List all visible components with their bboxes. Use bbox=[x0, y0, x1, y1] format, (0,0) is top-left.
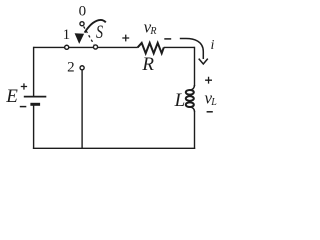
resistor R zigzag bbox=[138, 43, 164, 53]
battery plus sign bbox=[21, 83, 27, 89]
resistor plus sign bbox=[122, 35, 129, 42]
svg-text:2: 2 bbox=[67, 59, 75, 75]
svg-text:1: 1 bbox=[63, 27, 71, 43]
inductor L coil bbox=[186, 85, 195, 112]
wire top right (resistor to corner) bbox=[164, 46, 195, 48]
switch pivot node bbox=[93, 45, 97, 49]
svg-text:0: 0 bbox=[79, 4, 87, 20]
svg-text:S: S bbox=[96, 21, 104, 43]
wire left (battery branch) bbox=[33, 47, 35, 149]
battery E plates bbox=[24, 97, 47, 105]
svg-text:L: L bbox=[210, 97, 217, 108]
svg-text:E: E bbox=[5, 86, 18, 107]
current arrow i bbox=[180, 39, 208, 65]
wire right (inductor branch) bbox=[194, 47, 196, 149]
resistor minus sign bbox=[164, 38, 171, 40]
switch terminal node 2 bbox=[80, 66, 84, 70]
switch S dashed blade (position 0 to pivot) bbox=[84, 26, 94, 44]
wire top (node 1 side) bbox=[34, 46, 138, 48]
switch S motion arrowhead bbox=[75, 33, 85, 44]
switch terminal node 0 bbox=[80, 22, 84, 26]
switch terminal node 1 bbox=[65, 45, 69, 49]
svg-text:R: R bbox=[149, 26, 156, 37]
inductor plus sign bbox=[205, 77, 212, 84]
inductor minus sign bbox=[207, 111, 213, 113]
svg-text:R: R bbox=[141, 54, 154, 75]
wire bottom bbox=[33, 147, 195, 149]
svg-text:L: L bbox=[174, 90, 186, 111]
battery minus sign bbox=[20, 106, 27, 108]
svg-text:i: i bbox=[210, 38, 214, 53]
switch S motion arc bbox=[85, 20, 106, 33]
wire from switch terminal 2 down to bottom bbox=[81, 70, 83, 148]
